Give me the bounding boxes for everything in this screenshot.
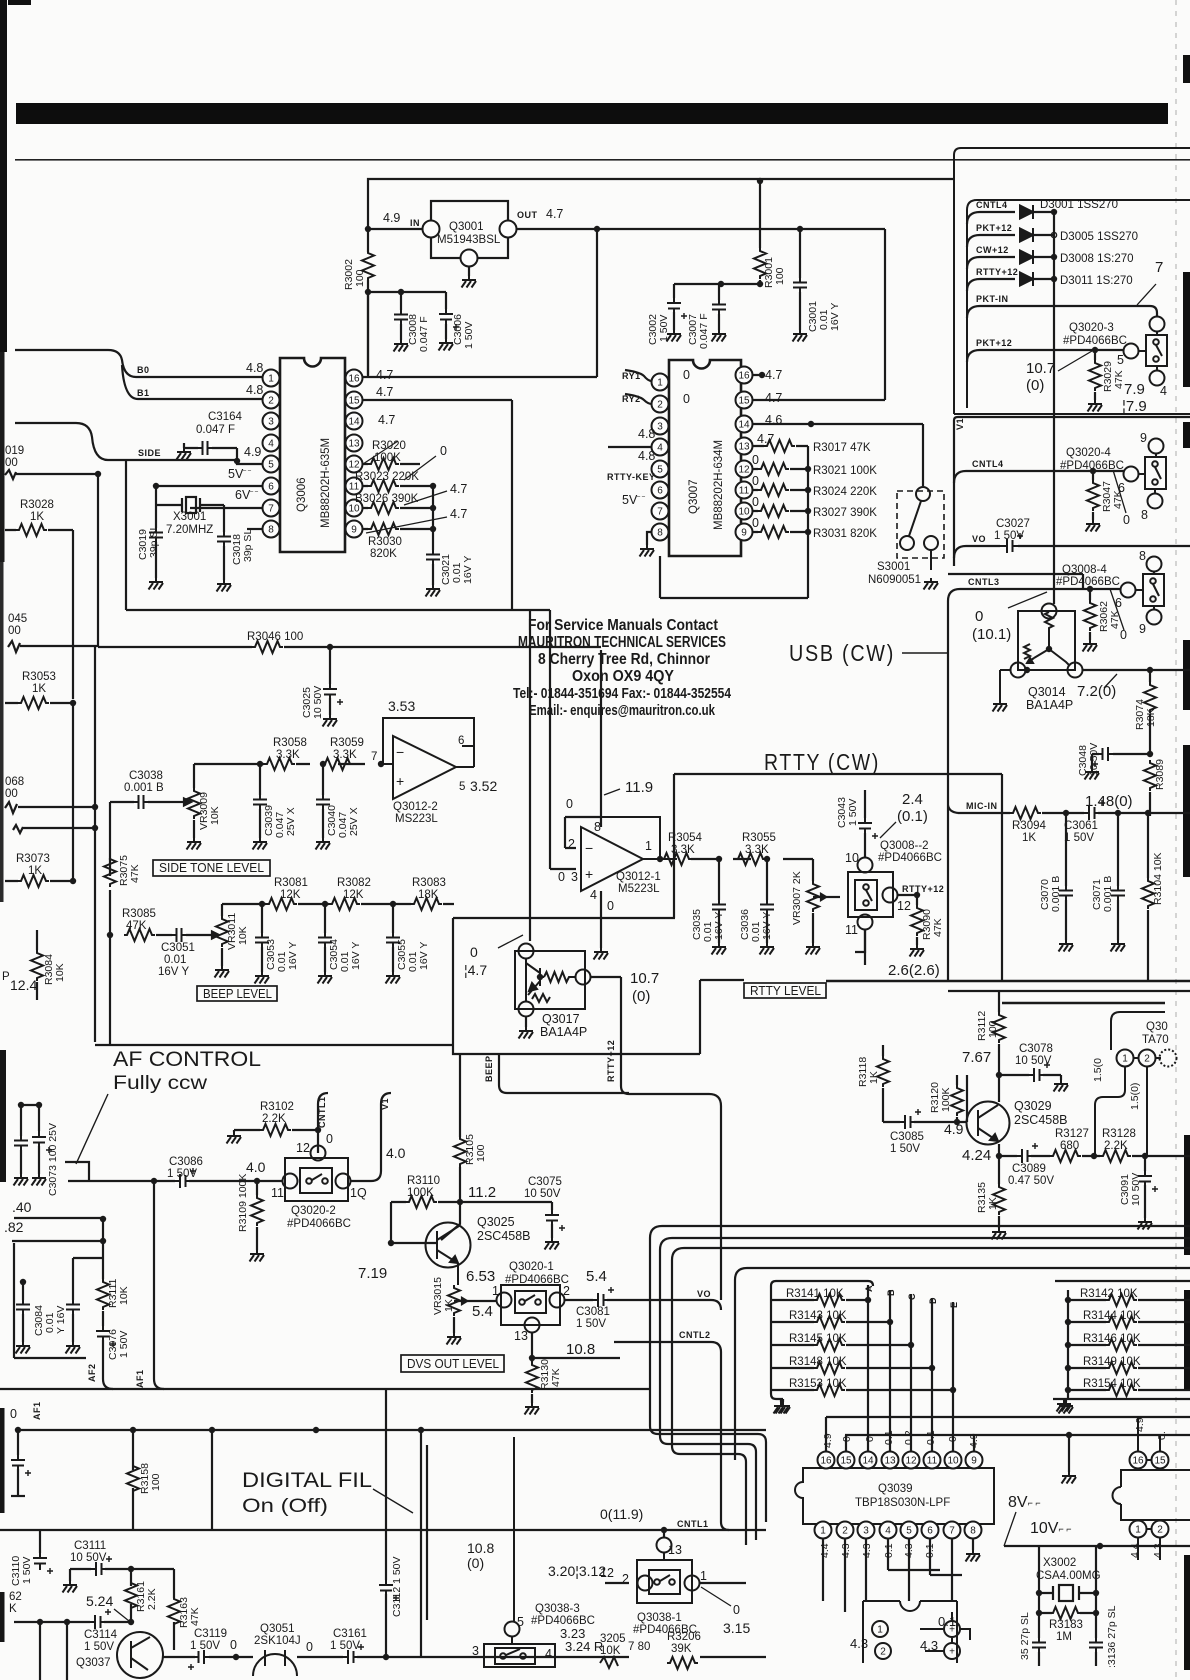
svg-text:RTTY+12: RTTY+12 [606, 1040, 616, 1082]
wire verticals x421 x427 [421, 1430, 427, 1657]
svg-text:6: 6 [657, 486, 663, 497]
wire 8V rail [1004, 1545, 1190, 1547]
svg-text:0.001 B: 0.001 B [124, 782, 164, 794]
panel box bottom edge [954, 413, 1190, 415]
leader q3038-1 [701, 1587, 731, 1606]
svg-text:7: 7 [1155, 259, 1163, 276]
transistor pack Q3017 BA1A4P [515, 944, 591, 1017]
svg-text:4: 4 [1160, 384, 1167, 398]
resistor R3020 100K [368, 458, 399, 470]
svg-text:2: 2 [568, 837, 575, 851]
resistor R3094 1K [1010, 807, 1041, 819]
leader Q3020-4 [1113, 470, 1126, 513]
pin drops bottom [823, 1538, 973, 1612]
leader Q3008-4 [1110, 589, 1124, 630]
switch Q3020-2 uPD4066BC [283, 1146, 351, 1202]
svg-text:15: 15 [840, 1456, 852, 1467]
svg-text:5: 5 [906, 1526, 912, 1537]
svg-text::3136 27p SL: :3136 27p SL [1106, 1605, 1118, 1668]
svg-text:9: 9 [971, 1456, 977, 1467]
bus wire 1 [650, 1226, 1190, 1522]
ground Q3001 [462, 276, 477, 288]
svg-text:5: 5 [1117, 353, 1124, 367]
resistor R3130 47K [526, 1362, 538, 1393]
svg-text:0: 0 [683, 368, 690, 382]
svg-text:12: 12 [348, 460, 360, 471]
svg-text:4.8: 4.8 [246, 383, 263, 397]
svg-text:4: 4 [657, 443, 663, 454]
svg-text:7: 7 [657, 507, 663, 518]
svg-text:R3030: R3030 [368, 536, 402, 548]
svg-text:R3102: R3102 [260, 1101, 294, 1113]
svg-text:RTTY-KEY: RTTY-KEY [607, 472, 656, 482]
svg-text:R3128: R3128 [1102, 1128, 1136, 1140]
svg-text:47K: 47K [126, 920, 147, 932]
ground C3073b [32, 1174, 47, 1186]
svg-text:4.7: 4.7 [450, 482, 467, 496]
svg-text:SIDE TONE LEVEL: SIDE TONE LEVEL [159, 861, 264, 875]
node C3061-C3071 [1115, 810, 1121, 816]
svg-text:.82: .82 [4, 1219, 24, 1235]
svg-text:B0: B0 [137, 365, 150, 375]
svg-text:VO: VO [697, 1289, 711, 1299]
svg-text:5V‾ ‾: 5V‾ ‾ [622, 493, 645, 507]
svg-text:2SC458B: 2SC458B [477, 1229, 531, 1243]
svg-text:10: 10 [738, 507, 750, 518]
resistor R3023 220K [368, 480, 399, 492]
ground ladder right [1059, 1402, 1074, 1414]
svg-text:16: 16 [348, 374, 360, 385]
svg-text:5.24: 5.24 [86, 1593, 113, 1609]
svg-text:1: 1 [268, 374, 274, 385]
svg-text:4.7: 4.7 [376, 385, 393, 399]
svg-text:D3008 1S:270: D3008 1S:270 [1060, 253, 1134, 265]
svg-text:IN: IN [410, 218, 420, 228]
svg-text:0: 0 [306, 1640, 313, 1654]
svg-text:Fully ccw: Fully ccw [113, 1073, 207, 1094]
diode D3011 1SS270 [1020, 272, 1033, 286]
svg-text:For Service Manuals Contact: For Service Manuals Contact [528, 617, 718, 634]
svg-text:13: 13 [884, 1456, 896, 1467]
capacitor C3018 39p SL [217, 529, 231, 549]
svg-text:4.3: 4.3 [920, 1638, 938, 1653]
svg-text:4.7: 4.7 [450, 507, 467, 521]
node PKT+12 to R3029 [1092, 347, 1098, 353]
node x98 y474 [95, 471, 101, 477]
ground R3047 [1086, 520, 1101, 532]
svg-text:10: 10 [845, 851, 859, 865]
svg-text:C3089: C3089 [1012, 1163, 1046, 1175]
svg-text:16V Y: 16V Y [829, 303, 841, 331]
svg-text:B1: B1 [137, 388, 150, 398]
wire pin8 vertical [600, 650, 602, 827]
svg-text:4.7: 4.7 [546, 207, 563, 221]
ground x1064 top [1057, 1400, 1072, 1412]
svg-text:16V Y: 16V Y [158, 966, 189, 978]
svg-text:X3002: X3002 [1043, 1557, 1076, 1569]
svg-text:10K: 10K [600, 1645, 621, 1657]
node junction OUT x597 [594, 226, 600, 232]
potentiometer VR3007 2K [813, 859, 840, 943]
svg-text:1: 1 [700, 1569, 707, 1583]
svg-text:V1: V1 [955, 418, 965, 430]
svg-text:10: 10 [947, 1456, 959, 1467]
svg-text:100K: 100K [940, 1087, 952, 1112]
svg-text:0.1: 0.1 [883, 1430, 895, 1445]
svg-text:R3094: R3094 [1012, 820, 1046, 832]
svg-text:0: 0 [566, 797, 573, 811]
ground C3070 [1059, 940, 1074, 952]
svg-text:Q3006: Q3006 [296, 477, 308, 512]
svg-text:CNTL4: CNTL4 [976, 200, 1008, 210]
wire MIC-IN [958, 812, 1190, 814]
svg-text:1 50V: 1 50V [1064, 832, 1094, 844]
svg-text:100K: 100K [407, 1187, 434, 1199]
svg-text:4: 4 [885, 1526, 891, 1537]
svg-text:4.9: 4.9 [944, 1121, 964, 1137]
ground C3025 [323, 715, 338, 727]
svg-text:4: 4 [590, 888, 597, 902]
wire pin16/15 to right [752, 229, 885, 400]
pin 1..8 circles [263, 370, 280, 387]
svg-text:4.8: 4.8 [638, 427, 655, 441]
svg-text:5: 5 [459, 781, 465, 793]
wire pin16 from C3008 rail [362, 229, 597, 377]
svg-text:0: 0 [10, 1407, 17, 1421]
wire Q3014 out to R3074 [1083, 670, 1190, 682]
resistor R3110 100K [406, 1196, 437, 1208]
svg-text:RTTY (CW): RTTY (CW) [764, 749, 880, 775]
svg-text:Q3051: Q3051 [260, 1623, 295, 1635]
wire SIDE into pin5 [15, 423, 262, 464]
svg-text:C3061: C3061 [1064, 820, 1098, 832]
panel left border segment [953, 420, 955, 566]
wire B1 into pin2 [122, 365, 262, 399]
svg-text:2: 2 [1144, 1054, 1150, 1065]
wire verticals from sidetone box [512, 610, 550, 941]
svg-text:RTTY+12: RTTY+12 [976, 267, 1018, 277]
ground C3040 [316, 838, 331, 850]
svg-text:2: 2 [622, 1572, 629, 1586]
wire V1 [351, 1093, 391, 1181]
svg-text:019: 019 [5, 445, 24, 457]
svg-text:+: + [396, 773, 404, 789]
svg-text:Q3012-1: Q3012-1 [616, 871, 661, 883]
wire B0 into pin1 [15, 350, 262, 529]
wire AF rail y1389 [0, 1388, 650, 1390]
ground R3135 [992, 1228, 1007, 1240]
ground C3006 [439, 339, 454, 351]
resistor R3031 820K [752, 531, 808, 533]
node junction x368 y292 [365, 289, 371, 295]
ground VR3009 [187, 838, 202, 850]
potentiometer VR3009 10K [170, 764, 194, 838]
svg-text:¦4.7: ¦4.7 [464, 962, 487, 978]
svg-text:8: 8 [1139, 549, 1146, 563]
svg-text:D: D [928, 1297, 938, 1304]
resistor R3017 47K [752, 445, 808, 447]
svg-text:11: 11 [739, 486, 750, 497]
svg-text:0.047 F: 0.047 F [418, 316, 430, 352]
ground C3084b [66, 1342, 81, 1354]
svg-text:4.8: 4.8 [638, 449, 655, 463]
wire Q3020-1 pin13 [532, 1332, 620, 1403]
capacitor C3051 0.01 16V Y [156, 934, 172, 936]
ground VR3007 [806, 943, 821, 955]
wire C3002/C3007 rail [674, 284, 760, 330]
svg-text:7 80: 7 80 [628, 1641, 650, 1653]
capacitor C3091 10 50V [1138, 1169, 1158, 1192]
svg-text:R3058: R3058 [273, 737, 307, 749]
node R3094-C3070 [1063, 810, 1069, 816]
svg-text:16V Y: 16V Y [350, 942, 362, 970]
ground C3002 [667, 330, 682, 342]
svg-text:12.4: 12.4 [10, 977, 37, 993]
svg-text:11: 11 [927, 1456, 938, 1467]
svg-text:14: 14 [862, 1456, 874, 1467]
svg-text:0.1: 0.1 [924, 1543, 936, 1558]
svg-text:7: 7 [371, 751, 377, 763]
svg-text:0: 0 [683, 392, 690, 406]
capacitor C3006 1 50V electrolytic [439, 292, 475, 349]
svg-text:4: 4 [268, 439, 274, 450]
svg-text:0: 0 [752, 474, 759, 488]
wire R3002 branch [367, 229, 369, 375]
resistor R3112 100 [993, 1012, 1005, 1043]
svg-text:7.19: 7.19 [358, 1265, 387, 1282]
box around beep amp [95, 918, 744, 1054]
svg-text:1.5(0): 1.5(0) [1129, 1083, 1141, 1110]
svg-text:RY1: RY1 [622, 371, 641, 381]
svg-text:7.20MHZ: 7.20MHZ [166, 524, 213, 536]
resistor R3047 47K [1092, 471, 1094, 520]
ground pin4 [594, 948, 609, 960]
svg-text:OUT: OUT [517, 210, 538, 220]
ground C3075 [545, 1238, 560, 1250]
svg-text:RTTY+12: RTTY+12 [902, 884, 944, 894]
svg-text:0.001 B: 0.001 B [1050, 876, 1062, 912]
bus wire 3 [672, 1248, 1190, 1545]
resistor R3055 3.3K [735, 853, 766, 865]
svg-text:16: 16 [1132, 1456, 1144, 1467]
svg-text:R3109 100K: R3109 100K [237, 1174, 249, 1232]
svg-text:R3023 220K: R3023 220K [355, 471, 419, 483]
svg-text:3: 3 [268, 417, 274, 428]
svg-text:25V X: 25V X [348, 807, 360, 836]
svg-text:C3111: C3111 [74, 1540, 106, 1552]
svg-text:0: 0 [752, 495, 759, 509]
wire y1218 [14, 1217, 103, 1219]
svg-text:7: 7 [949, 1526, 955, 1537]
wire pin2 loop [565, 817, 601, 848]
svg-text:35 27p SL: 35 27p SL [1019, 1612, 1031, 1660]
wire pin15 long [126, 400, 512, 610]
svg-text:1: 1 [657, 378, 663, 389]
wire emitter rail y1657 [163, 1583, 766, 1657]
svg-text:S3001: S3001 [877, 561, 910, 573]
svg-text:1M: 1M [1056, 1631, 1072, 1643]
capacitor C3112 1 50V [385, 1389, 387, 1657]
capacitor C3039 0.047 25V X [259, 764, 261, 838]
wire rail y991 [948, 990, 1190, 992]
svg-text:C3164: C3164 [208, 411, 242, 423]
svg-text:1.48(0): 1.48(0) [1085, 793, 1133, 810]
resistor R3089 [1144, 760, 1156, 791]
svg-text:R3028: R3028 [20, 499, 54, 511]
svg-text:9: 9 [1139, 622, 1146, 636]
resistor R3081 12K [266, 898, 297, 910]
wire collector rail [998, 992, 1000, 1102]
capacitor C3040 0.047 25V X [322, 764, 324, 838]
svg-text:3.24 R: 3.24 R [565, 1639, 603, 1654]
svg-text:(0): (0) [1026, 377, 1044, 394]
svg-text:2: 2 [268, 396, 274, 407]
svg-text:RTTY LEVEL: RTTY LEVEL [750, 984, 821, 998]
bus for R3023/26/30 [432, 486, 434, 585]
svg-text:10K: 10K [54, 963, 66, 982]
ground C3111 [63, 1581, 78, 1593]
svg-text:Q30: Q30 [1146, 1021, 1168, 1033]
capacitor C3007 0.047 F [712, 297, 726, 317]
svg-text:#PD4066BC: #PD4066BC [878, 852, 942, 864]
svg-text:R3027 390K: R3027 390K [813, 507, 877, 519]
capacitor C3025 10 50V [323, 682, 343, 705]
ground C3018 [217, 580, 232, 592]
resistor R3024 220K [752, 489, 808, 491]
svg-text:9: 9 [741, 528, 747, 539]
capacitor C3048 10 50V [1092, 754, 1150, 768]
svg-text:15: 15 [1154, 1456, 1166, 1467]
lower IC partial [863, 1601, 957, 1663]
svg-text:10.7: 10.7 [1026, 360, 1055, 377]
svg-text:−: − [585, 840, 593, 856]
svg-text:10: 10 [348, 504, 360, 515]
svg-text:0.1: 0.1 [883, 1543, 895, 1558]
svg-text:2.2K: 2.2K [146, 1588, 158, 1610]
svg-text:(0.1): (0.1) [897, 808, 928, 825]
capacitor C3053 0.01 16V Y [261, 904, 263, 972]
resistor R3090 47K [911, 905, 923, 936]
svg-text:2: 2 [842, 1526, 848, 1537]
ground C3078 [1054, 1080, 1069, 1092]
wire RY1 [625, 370, 652, 381]
svg-text:0: 0 [752, 516, 759, 530]
svg-text:AF2: AF2 [87, 1363, 97, 1382]
ground pin8 Q3039 [966, 1550, 981, 1562]
svg-text:1K: 1K [868, 1071, 880, 1084]
thin rule under bar [15, 159, 1190, 161]
svg-text:16V Y: 16V Y [462, 556, 474, 584]
svg-text:R3081: R3081 [274, 877, 308, 889]
svg-text:R3127: R3127 [1055, 1128, 1089, 1140]
svg-text:2: 2 [880, 1647, 886, 1658]
svg-text:12: 12 [600, 1566, 614, 1580]
svg-text:C3051: C3051 [161, 942, 195, 954]
svg-text:0.: 0. [1156, 1431, 1168, 1440]
svg-text:4.3: 4.3 [861, 1543, 873, 1558]
svg-text:8: 8 [1141, 508, 1148, 522]
svg-text:10.8: 10.8 [566, 1341, 595, 1358]
ground R3130 [525, 1403, 540, 1415]
svg-text:R3141 10K: R3141 10K [786, 1288, 844, 1300]
wire pin4 [608, 446, 652, 448]
svg-text:C3085: C3085 [890, 1131, 924, 1143]
resistor R3135 1K [993, 1184, 1005, 1215]
svg-text:C3161: C3161 [333, 1628, 367, 1640]
wire R3105 branch [441, 1054, 460, 1240]
svg-text:BEEP: BEEP [484, 1055, 494, 1082]
resistor R3044 partial [8, 641, 98, 652]
svg-text:4.9: 4.9 [1134, 1417, 1146, 1432]
svg-text:R3082: R3082 [337, 877, 371, 889]
svg-text:1K: 1K [28, 865, 42, 877]
svg-text:0: 0 [864, 1436, 876, 1442]
svg-text:5: 5 [268, 460, 274, 471]
svg-text:6: 6 [458, 735, 464, 747]
resistor R3109 100K [256, 1181, 258, 1250]
wire base rail y1622 [14, 1622, 131, 1680]
switch Q3038-1 uPD4066BC [637, 1538, 700, 1604]
leader Q3017 [498, 935, 523, 948]
svg-text:7.67: 7.67 [962, 1049, 991, 1066]
ground C3091 [1138, 1218, 1153, 1230]
svg-text:0: 0 [975, 608, 983, 625]
svg-text:Q3008-4: Q3008-4 [1062, 564, 1107, 576]
svg-text:47K: 47K [189, 1607, 201, 1626]
svg-text:15: 15 [348, 396, 360, 407]
diode D3008 1SS270 [1020, 250, 1033, 264]
resistor R3046 100 [252, 641, 283, 653]
resistor R3001 100 [759, 181, 761, 284]
resistor R3083 18K [411, 898, 442, 910]
svg-text:#PD4066BC: #PD4066BC [1060, 460, 1124, 472]
node x95 y807 [92, 804, 98, 810]
svg-text:12: 12 [296, 1141, 310, 1155]
svg-text:(10.1): (10.1) [972, 626, 1011, 643]
svg-text:MIC-IN: MIC-IN [966, 801, 998, 811]
svg-text:1Q: 1Q [350, 1186, 367, 1200]
wire pin6 6V rail [156, 485, 262, 487]
svg-text:R3024 220K: R3024 220K [813, 486, 877, 498]
svg-text:C3027: C3027 [996, 518, 1030, 530]
svg-text:1K: 1K [443, 1299, 455, 1312]
svg-text:7.2(0): 7.2(0) [1077, 683, 1116, 700]
svg-text:12K: 12K [280, 889, 301, 901]
wire y827 with resistor stub [13, 825, 95, 833]
svg-text:BA1A4P: BA1A4P [540, 1025, 587, 1039]
svg-text:1: 1 [877, 1625, 883, 1636]
leader 8V [1004, 1512, 1016, 1546]
svg-text:6: 6 [268, 482, 274, 493]
resistor R3021 100K [752, 468, 808, 470]
svg-text:2.2K: 2.2K [1104, 1140, 1128, 1152]
svg-text:Q3007: Q3007 [688, 479, 700, 514]
svg-text:MB88202H-634M: MB88202H-634M [713, 440, 725, 530]
wire rail y1530 [0, 1529, 766, 1531]
wire pin14 to S3001 [752, 424, 923, 486]
right ladder spine [1053, 1281, 1190, 1402]
svg-text:3: 3 [472, 1644, 479, 1658]
svg-text:On (Off): On (Off) [242, 1496, 328, 1517]
resistor R3058 3.3K [264, 758, 295, 770]
svg-text:R3206: R3206 [667, 1631, 701, 1643]
wire BEEP drop [499, 1054, 721, 1300]
svg-text:0.01: 0.01 [164, 954, 186, 966]
svg-text:CNTL3: CNTL3 [968, 577, 1000, 587]
wire rails above Q3039 [826, 1417, 1190, 1435]
resistor R3104 10K [1147, 813, 1149, 982]
svg-text:R3053: R3053 [22, 671, 56, 683]
